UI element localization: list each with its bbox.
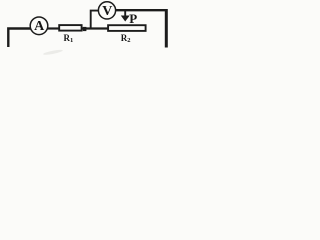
wire: slider stem — [124, 11, 126, 17]
svg-text:V: V — [102, 4, 112, 19]
wire: ammeter to R1 — [47, 27, 59, 29]
resistor R1 — [59, 25, 81, 31]
rheostat R2 — [108, 25, 146, 31]
wire: R1 to R2 — [83, 27, 109, 29]
node junction (R1/R2/voltmeter tap) — [83, 27, 87, 31]
wire: right vertical lead — [165, 9, 168, 48]
ammeter A — [30, 17, 48, 35]
wire: left vertical lead + top-left horizontal to ammeter — [8, 29, 30, 48]
wire: voltmeter left lead down to junction — [91, 11, 99, 29]
slider arrow P — [121, 16, 130, 22]
background — [0, 0, 178, 58]
svg-text:P: P — [129, 11, 137, 26]
wire: voltmeter right lead, top wire to right vertical lead — [116, 9, 167, 11]
voltmeter V — [98, 2, 115, 19]
svg-text:A: A — [34, 19, 45, 34]
